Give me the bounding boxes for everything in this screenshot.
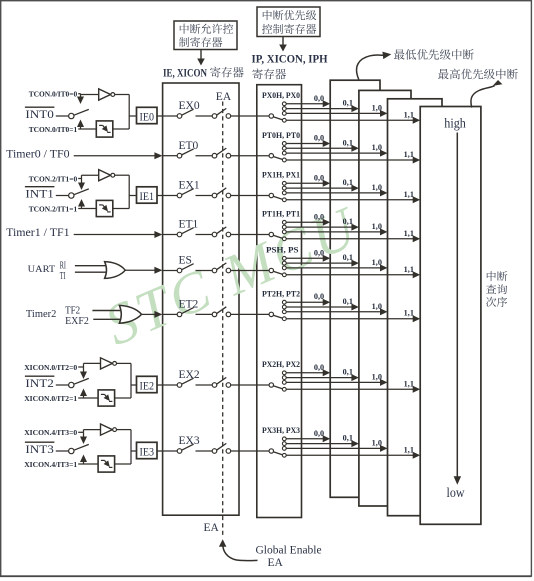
svg-text:1,1: 1,1 bbox=[404, 265, 414, 274]
svg-text:Global Enable: Global Enable bbox=[256, 545, 322, 557]
svg-text:IE1: IE1 bbox=[140, 189, 155, 203]
svg-text:XICON.0/IT2=0: XICON.0/IT2=0 bbox=[24, 363, 77, 372]
svg-text:PX1H, PX1: PX1H, PX1 bbox=[262, 171, 300, 180]
svg-text:IE2: IE2 bbox=[140, 378, 155, 392]
svg-text:Timer0 / TF0: Timer0 / TF0 bbox=[6, 148, 70, 160]
svg-text:0,1: 0,1 bbox=[343, 138, 353, 147]
svg-text:INT0: INT0 bbox=[25, 107, 54, 121]
svg-text:TF2: TF2 bbox=[65, 305, 80, 316]
svg-text:0,1: 0,1 bbox=[343, 368, 353, 377]
svg-text:INT1: INT1 bbox=[25, 187, 54, 201]
svg-text:1,0: 1,0 bbox=[372, 143, 382, 152]
svg-text:PT0H, PT0: PT0H, PT0 bbox=[262, 131, 300, 140]
svg-text:0,1: 0,1 bbox=[343, 178, 353, 187]
svg-text:1,0: 1,0 bbox=[372, 372, 382, 381]
svg-text:XICON.4/IT3=1: XICON.4/IT3=1 bbox=[24, 460, 77, 469]
svg-text:PX2H, PX2: PX2H, PX2 bbox=[262, 360, 300, 369]
svg-text:ET2: ET2 bbox=[179, 299, 199, 311]
svg-text:1,0: 1,0 bbox=[372, 183, 382, 192]
svg-text:1,1: 1,1 bbox=[404, 150, 414, 159]
svg-text:XICON.0/IT2=1: XICON.0/IT2=1 bbox=[24, 394, 77, 403]
svg-text:Timer1 / TF1: Timer1 / TF1 bbox=[6, 227, 70, 239]
svg-text:1,0: 1,0 bbox=[372, 258, 382, 267]
svg-text:STC MCU: STC MCU bbox=[96, 193, 369, 358]
svg-text:0,1: 0,1 bbox=[343, 297, 353, 306]
svg-text:IE, XICON: IE, XICON bbox=[163, 66, 207, 80]
svg-text:PT1H, PT1: PT1H, PT1 bbox=[262, 210, 300, 219]
svg-text:1,0: 1,0 bbox=[372, 103, 382, 112]
svg-text:1,1: 1,1 bbox=[404, 379, 414, 388]
svg-text:TCON.2/IT1=0: TCON.2/IT1=0 bbox=[29, 174, 78, 183]
svg-text:XICON.4/IT3=0: XICON.4/IT3=0 bbox=[24, 428, 77, 437]
svg-text:Timer2: Timer2 bbox=[26, 308, 57, 320]
svg-text:ET0: ET0 bbox=[179, 140, 199, 152]
svg-text:UART: UART bbox=[28, 265, 56, 275]
svg-text:EA: EA bbox=[216, 91, 232, 103]
svg-text:EX1: EX1 bbox=[179, 180, 200, 192]
svg-text:PSH, PS: PSH, PS bbox=[266, 246, 299, 255]
svg-text:TCON.2/IT1=1: TCON.2/IT1=1 bbox=[29, 204, 78, 213]
svg-text:0,0: 0,0 bbox=[314, 134, 324, 143]
svg-text:IE0: IE0 bbox=[140, 109, 155, 123]
svg-text:0,0: 0,0 bbox=[314, 292, 324, 301]
svg-text:0,0: 0,0 bbox=[314, 94, 324, 103]
svg-text:PX0H, PX0: PX0H, PX0 bbox=[262, 91, 300, 100]
svg-text:EA: EA bbox=[268, 557, 284, 569]
svg-text:PX3H, PX3: PX3H, PX3 bbox=[262, 426, 300, 435]
svg-text:1,1: 1,1 bbox=[404, 445, 414, 454]
svg-text:1,0: 1,0 bbox=[372, 222, 382, 231]
svg-text:TI: TI bbox=[60, 271, 66, 282]
svg-text:1,1: 1,1 bbox=[404, 309, 414, 318]
svg-text:0,0: 0,0 bbox=[314, 248, 324, 257]
svg-text:EA: EA bbox=[204, 522, 220, 534]
svg-text:1,1: 1,1 bbox=[404, 110, 414, 119]
svg-text:1,0: 1,0 bbox=[372, 438, 382, 447]
svg-text:0,1: 0,1 bbox=[343, 434, 353, 443]
svg-text:1,0: 1,0 bbox=[372, 302, 382, 311]
svg-text:high: high bbox=[444, 116, 466, 131]
svg-text:PT2H, PT2: PT2H, PT2 bbox=[262, 290, 300, 299]
svg-text:1,1: 1,1 bbox=[404, 190, 414, 199]
svg-text:RI: RI bbox=[60, 260, 66, 271]
svg-text:TCON.0/IT0=1: TCON.0/IT0=1 bbox=[29, 125, 78, 134]
svg-text:0,0: 0,0 bbox=[314, 173, 324, 182]
svg-text:INT3: INT3 bbox=[25, 442, 54, 456]
svg-text:EX2: EX2 bbox=[179, 369, 200, 381]
svg-text:low: low bbox=[447, 486, 466, 501]
svg-text:0,1: 0,1 bbox=[343, 99, 353, 108]
svg-text:1,1: 1,1 bbox=[404, 229, 414, 238]
svg-text:TCON.0/IT0=0: TCON.0/IT0=0 bbox=[29, 90, 78, 99]
svg-text:INT2: INT2 bbox=[25, 376, 54, 390]
svg-text:0,0: 0,0 bbox=[314, 212, 324, 221]
svg-text:ET1: ET1 bbox=[179, 219, 199, 231]
svg-text:EX3: EX3 bbox=[179, 435, 200, 447]
svg-text:0,0: 0,0 bbox=[314, 429, 324, 438]
svg-text:IP, XICON, IPH: IP, XICON, IPH bbox=[252, 52, 329, 66]
svg-text:EXF2: EXF2 bbox=[65, 316, 89, 327]
svg-text:IE3: IE3 bbox=[140, 444, 155, 458]
svg-text:0,0: 0,0 bbox=[314, 363, 324, 372]
svg-text:0,1: 0,1 bbox=[343, 217, 353, 226]
svg-text:0,1: 0,1 bbox=[343, 253, 353, 262]
svg-text:EX0: EX0 bbox=[179, 100, 200, 112]
